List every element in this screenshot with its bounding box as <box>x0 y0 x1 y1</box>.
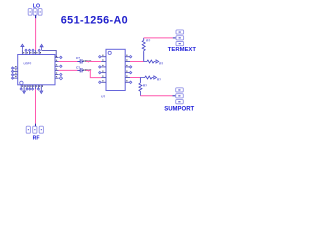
svg-text:651-1256-A0: 651-1256-A0 <box>61 15 128 27</box>
U1 left pin no-connect diamonds <box>11 67 13 79</box>
U2 left pin numbers <box>102 55 103 82</box>
U2 right pin no-connect diamonds <box>129 56 131 84</box>
op IC U1 body <box>18 55 55 85</box>
resistor R4 vertical to SUMPORT <box>139 83 142 96</box>
U2 right pin numbers <box>126 55 127 82</box>
wire junction up <box>143 38 145 40</box>
RF pin dots <box>28 129 42 130</box>
SUMPORT pin dots <box>178 89 180 102</box>
pin stub RF connector <box>35 124 37 127</box>
U1 left pins stubs <box>13 68 18 78</box>
resistor R3 horizontal bottom <box>140 76 153 79</box>
U1 top pins stubs <box>22 50 39 55</box>
svg-text:R?: R? <box>143 83 147 87</box>
TERMEXT pin dots <box>179 32 181 45</box>
svg-text:TERMEXT: TERMEXT <box>168 47 197 53</box>
wire net A left segment <box>59 61 78 63</box>
connector J2 TERMEXT <box>176 30 184 46</box>
U2 pin-1 circle <box>108 51 111 54</box>
wire RF net <box>35 89 37 123</box>
resistor R2 horizontal top <box>144 60 156 63</box>
svg-text:R?: R? <box>157 77 161 81</box>
pin stub TERMEXT connector <box>173 37 176 39</box>
ground arrow bottom-left of U1 <box>23 90 26 94</box>
U1 right pin no-connect diamonds <box>59 56 62 80</box>
resistor R1 vertical to TERMEXT <box>142 40 145 52</box>
U1 left pin numbers <box>15 66 16 77</box>
U2 right pins stubs <box>125 57 130 83</box>
wire power jog to U1 right pin 1 <box>42 50 57 57</box>
pin stub LO connector <box>35 15 37 18</box>
wire net B left segment <box>59 69 78 71</box>
terminal arrow R2 <box>156 60 159 63</box>
wire LO net <box>35 18 37 50</box>
capacitor C2 <box>77 68 83 72</box>
connector J3 SUMPORT <box>176 88 184 104</box>
svg-text:RF: RF <box>33 136 40 142</box>
U1 bottom pin numbers <box>22 85 43 86</box>
transformer IC U2 body <box>106 49 125 90</box>
svg-text:C?: C? <box>76 65 80 69</box>
svg-text:U?P?: U?P? <box>24 62 32 66</box>
svg-text:R?: R? <box>146 38 150 42</box>
wire U2 pin5 to junction <box>130 77 140 79</box>
U1 right pin numbers <box>56 56 57 77</box>
connector J1 LO <box>28 9 42 16</box>
ground arrow bottom-right of U1 <box>40 90 43 94</box>
wire net A right segment <box>86 61 101 63</box>
terminal arrow R3 <box>154 76 157 79</box>
wire net B right segment with step down <box>86 70 101 77</box>
connector LO pin dots <box>30 11 41 12</box>
power arrow VCC top-left of U1 <box>21 44 24 50</box>
node junction TERMEXT branch <box>143 52 145 62</box>
connector J4 RF <box>26 126 43 133</box>
power arrow VCC top-right of U1 <box>40 44 43 50</box>
U2 left pins stubs <box>101 57 106 83</box>
U2 left pin no-connect diamonds <box>99 56 101 84</box>
U1 bottom pin no-connect diamonds <box>20 88 39 90</box>
wire SUMPORT net <box>140 95 172 97</box>
wire U2 pin to TERMEXT junction <box>130 61 144 63</box>
U1 top pin no-connect diamonds <box>25 49 40 51</box>
node junction SUMPORT branch <box>139 78 141 83</box>
svg-text:LO: LO <box>33 3 40 9</box>
pin stub SUMPORT connector <box>173 95 176 97</box>
U1 top pin numbers <box>23 52 41 53</box>
U1 bottom pins stubs <box>21 85 41 90</box>
svg-text:C?: C? <box>76 56 80 60</box>
svg-text:U?: U? <box>101 94 105 98</box>
U1 right pins stubs <box>55 57 59 78</box>
wire TERMEXT net <box>144 37 173 39</box>
U1 pin-1 circle <box>20 81 23 84</box>
svg-text:R?: R? <box>159 62 163 66</box>
capacitor C1 <box>77 59 83 63</box>
svg-text:SUMPORT: SUMPORT <box>164 107 194 113</box>
